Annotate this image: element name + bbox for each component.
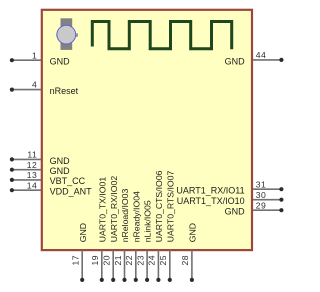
svg-text:VBT_CC: VBT_CC [50,176,86,186]
svg-text:UART1_TX/IO10: UART1_TX/IO10 [177,196,245,206]
svg-text:17: 17 [71,255,81,265]
svg-text:1: 1 [32,50,37,60]
svg-text:21: 21 [113,255,123,265]
svg-text:UART0_RX/IO02: UART0_RX/IO02 [109,176,119,243]
svg-text:24: 24 [147,255,157,265]
svg-text:GND: GND [50,56,71,66]
svg-text:UART1_RX/IO11: UART1_RX/IO11 [176,186,244,196]
svg-text:22: 22 [124,255,134,265]
svg-text:29: 29 [256,200,266,210]
svg-text:44: 44 [256,50,266,60]
svg-text:GND: GND [50,156,71,166]
svg-text:25: 25 [158,255,168,265]
svg-text:14: 14 [27,180,37,190]
svg-text:nLink/IO05: nLink/IO05 [143,200,153,242]
svg-text:nReset: nReset [50,86,79,96]
svg-text:nReady/IO04: nReady/IO04 [131,191,141,242]
svg-text:GND: GND [225,207,246,217]
svg-text:28: 28 [180,255,190,265]
svg-text:19: 19 [90,255,100,265]
svg-text:31: 31 [256,179,266,189]
svg-text:11: 11 [27,150,37,160]
svg-text:23: 23 [135,255,145,265]
svg-text:GND: GND [188,223,198,242]
svg-text:20: 20 [102,255,112,265]
svg-text:nReload/IO03: nReload/IO03 [120,189,130,243]
svg-text:13: 13 [27,170,37,180]
svg-text:12: 12 [27,160,37,170]
svg-text:UART0_TX/IO01: UART0_TX/IO01 [97,177,107,243]
svg-text:GND: GND [78,223,88,242]
svg-text:UART0_CTS/IO06: UART0_CTS/IO06 [154,170,164,242]
svg-text:30: 30 [256,190,266,200]
svg-text:GND: GND [225,56,246,66]
svg-text:4: 4 [32,80,37,90]
svg-text:UART0_RTS/IO07: UART0_RTS/IO07 [165,171,175,243]
svg-text:VDD_ANT: VDD_ANT [50,187,93,197]
svg-text:GND: GND [50,166,71,176]
